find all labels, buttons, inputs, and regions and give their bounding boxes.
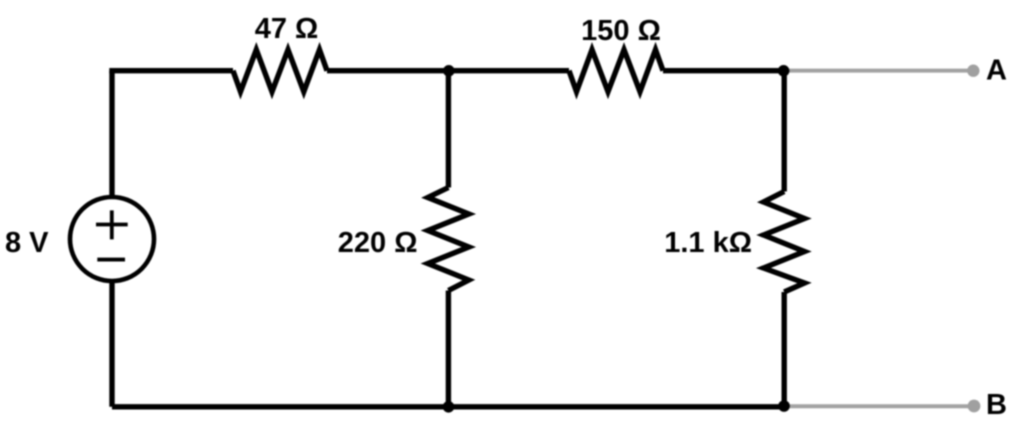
resistor 150Ω (horizontal zigzag) (569, 50, 663, 92)
voltage source 8V (circle) (70, 197, 154, 281)
wire right vertical upper (top right node down to 1.1kΩ) (782, 71, 787, 192)
svg-text:A: A (986, 55, 1007, 87)
node junction bottom middle (443, 401, 455, 413)
wire left vertical (source bottom to bottom corner) (109, 281, 114, 407)
svg-text:1.1 kΩ: 1.1 kΩ (664, 227, 752, 259)
wire middle vertical upper (top node down to 220Ω) (446, 71, 451, 188)
minus sign (97, 258, 125, 262)
svg-text:220 Ω: 220 Ω (338, 227, 418, 259)
wire gray to terminal A (784, 69, 973, 73)
node junction top right (778, 65, 790, 77)
svg-text:B: B (986, 389, 1007, 421)
svg-text:150 Ω: 150 Ω (581, 15, 661, 47)
wire right vertical lower (1.1kΩ to bottom right node) (782, 292, 787, 407)
wire left vertical (corner down to source top) (109, 71, 114, 199)
resistor 47Ω (horizontal zigzag) (233, 50, 327, 92)
svg-text:47 Ω: 47 Ω (255, 13, 319, 45)
wire gray to terminal B (784, 404, 974, 408)
terminal B gray dot (968, 400, 981, 413)
wire bottom horizontal (112, 404, 784, 409)
svg-text:8 V: 8 V (5, 227, 49, 259)
wire top middle (47Ω to 150Ω across node) (327, 68, 569, 73)
node junction bottom right (778, 400, 790, 412)
wire middle vertical lower (220Ω to bottom node) (446, 291, 451, 407)
resistor 220Ω (vertical zigzag) (428, 188, 469, 291)
wire top-left horizontal (left corner to 47Ω) (112, 68, 233, 71)
resistor 1.1kΩ (vertical zigzag) (764, 192, 805, 293)
terminal A gray dot (967, 65, 979, 77)
wire top right (150Ω to right node) (663, 68, 784, 73)
plus sign (96, 210, 128, 239)
node junction top middle (443, 65, 455, 77)
